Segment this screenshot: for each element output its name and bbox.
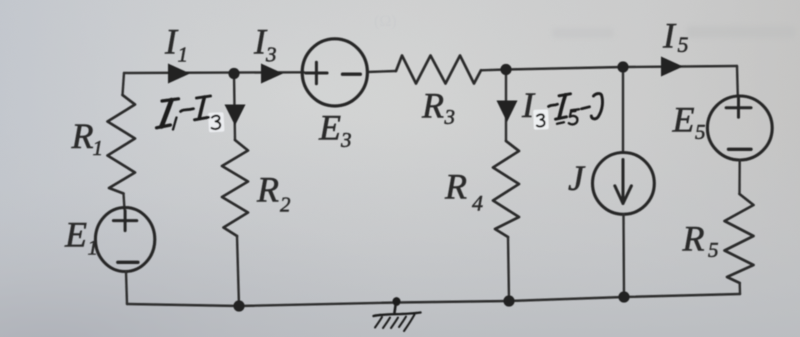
wire R4 to bottom: [508, 237, 509, 301]
label E3: [318, 108, 352, 152]
wire right branch upper: [736, 66, 739, 96]
wire R1 to E1: [124, 194, 125, 210]
label R2: [256, 170, 291, 217]
svg-text:I: I: [662, 15, 677, 55]
label R1: [71, 116, 104, 160]
node dot N4: [233, 300, 244, 311]
svg-text:E: E: [64, 215, 87, 255]
wire R3 to node N2 to node N3 to top-right corner: [481, 66, 737, 70]
svg-text:5: 5: [708, 238, 719, 262]
voltage source E1: [95, 208, 154, 272]
label R5: [682, 219, 719, 263]
current arrow I5: [661, 57, 683, 77]
label I5: [662, 15, 689, 57]
ground symbol (handwritten): [374, 297, 421, 331]
handwritten label I1-I3: [157, 96, 221, 130]
label R4: [444, 167, 483, 216]
resistor R1: [108, 95, 136, 194]
svg-text:R: R: [256, 170, 279, 210]
wire left branch upper: [123, 73, 125, 95]
svg-text:2: 2: [280, 193, 291, 217]
faint show-through marks: [374, 13, 796, 38]
svg-text:(Ω): (Ω): [374, 13, 397, 30]
node dot N6: [618, 291, 629, 302]
svg-text:4: 4: [472, 191, 483, 216]
current arrow I1: [168, 64, 190, 84]
label I3: [253, 22, 277, 67]
current arrow I3: [261, 64, 283, 84]
wire J to bottom: [622, 214, 625, 297]
whiteout patch under handwritten 3 of I3-I5-J: [533, 109, 549, 130]
resistor R4: [493, 141, 519, 237]
svg-text:E: E: [672, 100, 695, 140]
label E5: [672, 100, 706, 145]
svg-text:R: R: [682, 219, 705, 259]
node dot N3: [617, 61, 628, 72]
wire top left horizontal A to E3: [124, 71, 304, 74]
current source J: [593, 153, 655, 215]
svg-text:5: 5: [695, 120, 706, 144]
wire E1 to bottom-left corner: [126, 272, 127, 305]
node dot N2: [500, 64, 511, 75]
label E1: [64, 215, 98, 260]
paper grain: [0, 0, 1, 1]
current arrow I3-I5-J (down, R4 branch): [497, 101, 518, 123]
wire R2 to bottom: [237, 236, 239, 306]
voltage source E3: [302, 39, 367, 106]
svg-text:1: 1: [93, 136, 104, 160]
label R3: [421, 85, 455, 129]
resistor R5: [725, 194, 754, 283]
wire bottom rail: [127, 294, 740, 306]
handwritten label I3-I5-J: [537, 94, 603, 127]
wire R5 to bottom-right corner: [739, 283, 742, 294]
resistor R3: [396, 56, 481, 84]
label I1: [164, 21, 188, 66]
svg-text:1: 1: [178, 43, 189, 67]
svg-text:1: 1: [88, 236, 99, 260]
node dot N1: [228, 68, 239, 79]
svg-text:3: 3: [265, 42, 277, 66]
node dot N5: [503, 295, 514, 306]
svg-text:J: J: [568, 158, 586, 198]
svg-text:3: 3: [340, 128, 352, 152]
whiteout patch under handwritten 3 of I1-I3: [208, 112, 224, 132]
resistor R2: [222, 140, 248, 236]
wire J branch upper: [622, 67, 624, 153]
svg-text:R: R: [421, 85, 444, 125]
current arrow I1-I3 (down, R2 branch): [225, 105, 246, 126]
svg-text:3: 3: [444, 105, 456, 129]
svg-text:E: E: [318, 108, 341, 148]
svg-text:R: R: [71, 116, 94, 156]
wire E3 to R3: [368, 71, 397, 72]
wire R2 branch upper: [234, 74, 235, 141]
wire R4 branch upper: [505, 70, 507, 142]
wire E5 to R5: [738, 160, 741, 194]
svg-text:R: R: [444, 167, 467, 207]
voltage source E5: [707, 96, 772, 160]
